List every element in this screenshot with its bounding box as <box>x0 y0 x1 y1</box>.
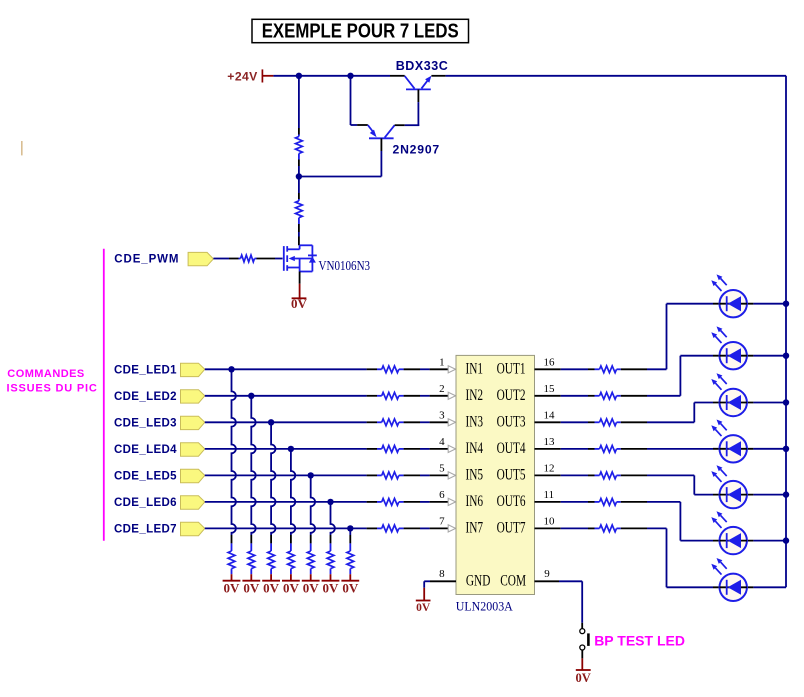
svg-text:0V: 0V <box>416 602 431 614</box>
svg-text:BP TEST LED: BP TEST LED <box>594 632 685 648</box>
svg-text:OUT6: OUT6 <box>497 492 526 509</box>
svg-text:15: 15 <box>544 383 556 395</box>
svg-text:VN0106N3: VN0106N3 <box>319 258 371 273</box>
svg-text:IN2: IN2 <box>466 386 484 403</box>
svg-text:0V: 0V <box>576 671 591 685</box>
svg-text:IN5: IN5 <box>466 466 484 483</box>
svg-text:COM: COM <box>500 572 526 589</box>
svg-text:0V: 0V <box>303 580 320 595</box>
svg-text:10: 10 <box>544 516 556 528</box>
svg-text:BDX33C: BDX33C <box>396 59 449 73</box>
svg-text:IN1: IN1 <box>466 360 484 377</box>
svg-text:0V: 0V <box>323 580 340 595</box>
svg-text:CDE_PWM: CDE_PWM <box>114 254 179 266</box>
svg-text:OUT4: OUT4 <box>497 439 526 456</box>
svg-text:4: 4 <box>439 436 445 448</box>
svg-text:+24V: +24V <box>227 69 258 83</box>
svg-text:EXEMPLE POUR 7 LEDS: EXEMPLE POUR 7 LEDS <box>262 19 459 42</box>
svg-text:0V: 0V <box>283 580 300 595</box>
svg-text:IN4: IN4 <box>466 439 484 456</box>
svg-text:6: 6 <box>439 489 445 501</box>
svg-text:1: 1 <box>439 356 445 368</box>
svg-text:ULN2003A: ULN2003A <box>456 599 513 614</box>
svg-text:9: 9 <box>544 568 550 580</box>
svg-text:7: 7 <box>439 516 445 528</box>
svg-text:OUT3: OUT3 <box>497 413 526 430</box>
svg-text:16: 16 <box>544 356 556 368</box>
svg-text:14: 14 <box>544 409 556 421</box>
svg-text:13: 13 <box>544 436 556 448</box>
svg-text:IN7: IN7 <box>466 519 484 536</box>
svg-text:CDE_LED4: CDE_LED4 <box>114 444 177 456</box>
svg-text:CDE_LED5: CDE_LED5 <box>114 471 177 483</box>
svg-text:OUT2: OUT2 <box>497 386 526 403</box>
svg-text:OUT1: OUT1 <box>497 360 526 377</box>
svg-text:CDE_LED2: CDE_LED2 <box>114 391 177 403</box>
svg-text:IN3: IN3 <box>466 413 484 430</box>
svg-text:CDE_LED3: CDE_LED3 <box>114 418 177 430</box>
svg-text:COMMANDES: COMMANDES <box>7 368 84 380</box>
svg-text:CDE_LED7: CDE_LED7 <box>114 524 177 536</box>
svg-text:0V: 0V <box>224 580 241 595</box>
svg-text:0V: 0V <box>342 580 359 595</box>
svg-text:OUT5: OUT5 <box>497 466 526 483</box>
svg-text:0V: 0V <box>291 296 308 311</box>
svg-text:2: 2 <box>439 383 445 395</box>
svg-text:IN6: IN6 <box>466 492 484 509</box>
svg-text:OUT7: OUT7 <box>497 519 526 536</box>
svg-text:8: 8 <box>439 568 445 580</box>
svg-text:2N2907: 2N2907 <box>393 143 441 157</box>
svg-text:CDE_LED6: CDE_LED6 <box>114 497 177 509</box>
svg-text:0V: 0V <box>243 580 260 595</box>
svg-text:12: 12 <box>544 463 555 475</box>
svg-text:GND: GND <box>466 572 491 589</box>
svg-text:0V: 0V <box>263 580 280 595</box>
svg-text:CDE_LED1: CDE_LED1 <box>114 365 177 377</box>
svg-text:5: 5 <box>439 463 445 475</box>
svg-text:3: 3 <box>439 409 445 421</box>
svg-text:11: 11 <box>544 489 555 501</box>
svg-text:ISSUES DU PIC: ISSUES DU PIC <box>7 382 98 394</box>
